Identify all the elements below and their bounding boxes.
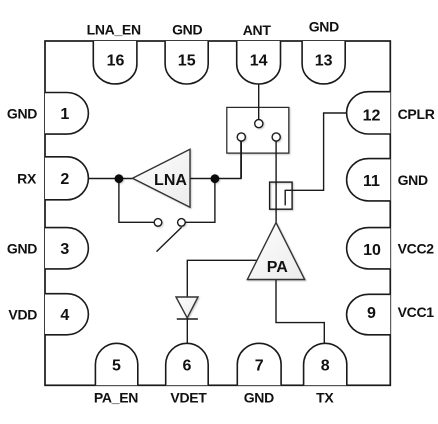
- svg-text:4: 4: [60, 307, 69, 324]
- svg-text:8: 8: [321, 357, 330, 374]
- svg-text:GND: GND: [172, 22, 202, 38]
- switch throw RX: [237, 133, 245, 141]
- switch throw TX: [272, 133, 280, 141]
- svg-text:1: 1: [60, 106, 69, 123]
- wire diode to VDET: [186, 318, 188, 344]
- bypass switch contact A: [154, 219, 162, 227]
- svg-text:6: 6: [183, 357, 192, 374]
- svg-text:GND: GND: [309, 19, 339, 35]
- svg-text:VDET: VDET: [170, 389, 207, 405]
- svg-text:PA_EN: PA_EN: [94, 389, 138, 405]
- pin 5: [95, 343, 137, 385]
- coupler: [270, 182, 293, 209]
- svg-text:13: 13: [315, 53, 333, 70]
- wire PA input to TX: [276, 280, 324, 344]
- svg-text:GND: GND: [398, 172, 428, 188]
- svg-text:TX: TX: [316, 389, 334, 405]
- svg-text:VCC1: VCC1: [398, 304, 435, 320]
- pin 1: [45, 93, 88, 135]
- pin 2: [45, 157, 88, 200]
- svg-text:7: 7: [255, 357, 264, 374]
- pin 4: [45, 294, 88, 335]
- antenna switch box: [227, 107, 289, 153]
- wire bypass left: [119, 179, 155, 223]
- pin 15: [165, 41, 208, 84]
- diode cathode bar: [177, 318, 198, 320]
- wire LNA output to switch: [190, 141, 241, 179]
- pin 16: [93, 41, 137, 84]
- pin 6: [166, 343, 209, 385]
- svg-text:5: 5: [112, 357, 121, 374]
- svg-text:11: 11: [363, 173, 380, 190]
- op-amp PA: [247, 223, 304, 280]
- svg-text:RX: RX: [17, 171, 37, 187]
- diode VDET detector: [176, 297, 198, 318]
- pin 9: [347, 294, 391, 335]
- wire RX to LNA input: [88, 178, 132, 180]
- svg-text:3: 3: [60, 241, 69, 258]
- svg-text:ANT: ANT: [243, 22, 272, 38]
- pin 8: [304, 343, 347, 385]
- node RX junction: [115, 174, 124, 183]
- svg-text:LNA: LNA: [154, 172, 187, 189]
- wire bypass right: [185, 179, 215, 223]
- pin 7: [237, 343, 281, 385]
- svg-text:16: 16: [107, 53, 125, 70]
- pin 12: [347, 92, 391, 134]
- svg-text:14: 14: [250, 53, 268, 70]
- wire ANT to switch: [258, 84, 260, 120]
- svg-text:VDD: VDD: [8, 307, 37, 323]
- svg-text:GND: GND: [7, 241, 37, 257]
- wire CPLR coupled port: [285, 113, 346, 205]
- node LNA output junction: [211, 174, 220, 183]
- svg-text:GND: GND: [244, 389, 274, 405]
- wire switch throw RX down: [240, 141, 242, 179]
- pin 11: [347, 159, 391, 201]
- svg-text:12: 12: [363, 108, 381, 125]
- svg-text:PA: PA: [267, 259, 288, 276]
- wire diode to PA: [187, 260, 257, 296]
- switch pole ANT: [255, 120, 263, 128]
- wire switch to PA output: [275, 141, 277, 223]
- pin 10: [347, 228, 391, 269]
- svg-text:CPLR: CPLR: [398, 106, 435, 122]
- svg-text:2: 2: [60, 171, 69, 188]
- op-amp LNA: [133, 149, 191, 207]
- svg-text:LNA_EN: LNA_EN: [87, 22, 141, 38]
- svg-text:9: 9: [367, 305, 376, 322]
- pin 13: [302, 41, 345, 84]
- bypass switch lever: [157, 227, 182, 251]
- bypass switch contact B: [178, 219, 186, 227]
- pin 14: [237, 41, 281, 84]
- svg-text:GND: GND: [7, 106, 37, 122]
- svg-text:10: 10: [363, 242, 381, 259]
- svg-text:VCC2: VCC2: [398, 241, 435, 257]
- svg-text:15: 15: [178, 53, 196, 70]
- package outline: [45, 41, 390, 385]
- pin 3: [45, 228, 88, 269]
